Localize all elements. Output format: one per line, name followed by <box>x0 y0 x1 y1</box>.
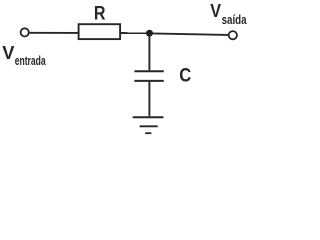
svg-text:C: C <box>179 65 191 86</box>
ground bottom bar <box>145 132 151 134</box>
wire input terminal to resistor <box>30 32 78 34</box>
svg-text:entrada: entrada <box>15 53 47 68</box>
ground top bar <box>133 116 164 118</box>
node junction dot <box>146 30 153 37</box>
capacitor C1 top plate <box>134 70 163 72</box>
svg-text:V: V <box>210 0 221 21</box>
input terminal (open circle) <box>21 28 29 36</box>
output terminal (open circle) <box>229 31 237 39</box>
wire capacitor to ground <box>148 82 150 116</box>
wire node down to capacitor <box>148 33 150 70</box>
svg-text:saída: saída <box>222 12 248 27</box>
wire node to output terminal <box>151 33 228 35</box>
resistor R1 body <box>79 24 121 39</box>
wire resistor to node <box>121 32 148 34</box>
svg-text:R: R <box>94 4 106 25</box>
ground middle bar <box>140 125 158 127</box>
capacitor C1 bottom plate <box>134 80 163 82</box>
svg-text:V: V <box>2 42 15 63</box>
